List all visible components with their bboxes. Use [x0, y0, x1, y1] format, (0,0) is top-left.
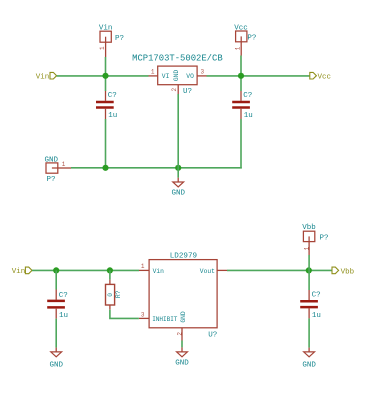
capacitor C3 — [47, 290, 65, 319]
svg-text:INHIBIT: INHIBIT — [152, 316, 178, 323]
hierarchical label Vbb — [332, 267, 354, 276]
svg-text:1: 1 — [99, 46, 106, 50]
junction rail / C1 — [102, 165, 108, 171]
wire cap C2 bottom to rail corner — [240, 119, 242, 169]
junction Vin / C3 — [53, 267, 59, 273]
ground symbol (U2) — [177, 347, 188, 356]
capacitor C4 — [300, 290, 318, 318]
svg-text:GND: GND — [180, 311, 187, 323]
ground symbol (C3) — [51, 348, 62, 357]
svg-text:1u: 1u — [108, 112, 117, 120]
capacitor C1 — [96, 91, 114, 119]
hierarchical label Vcc — [310, 72, 331, 81]
svg-text:C?: C? — [108, 92, 117, 100]
svg-text:R?: R? — [115, 290, 122, 298]
svg-text:1u: 1u — [312, 312, 321, 320]
pin 1 (U1 VI) — [149, 75, 158, 77]
ground symbol (C4) — [304, 348, 315, 357]
capacitor C2 — [232, 91, 250, 119]
op-amp U1 MCP1703T body — [158, 66, 197, 85]
svg-text:GND: GND — [175, 360, 189, 368]
svg-text:LD2979: LD2979 — [170, 252, 198, 260]
svg-text:Vin: Vin — [99, 25, 113, 33]
svg-text:1: 1 — [62, 161, 66, 168]
svg-text:C?: C? — [59, 292, 68, 300]
svg-text:3: 3 — [141, 311, 145, 318]
svg-text:GND: GND — [49, 361, 63, 369]
wire R1 to LD2979 pin3 — [110, 310, 139, 319]
wire TP3 to junction — [308, 255, 310, 270]
svg-text:P?: P? — [115, 35, 124, 43]
svg-text:0: 0 — [107, 293, 114, 297]
wire Vin label to LD2979 pin1 — [32, 269, 139, 271]
wire cap C1 bottom to ground rail — [105, 119, 107, 168]
wire U2 pin2 to ground — [181, 341, 183, 348]
pin Vout (U2) — [217, 269, 227, 271]
wire IC pin3 to Vcc label — [207, 75, 310, 77]
svg-text:C?: C? — [243, 92, 252, 100]
svg-text:Vbb: Vbb — [341, 268, 355, 276]
svg-text:1: 1 — [141, 263, 145, 270]
svg-text:C?: C? — [312, 292, 321, 300]
svg-text:3: 3 — [200, 69, 204, 76]
svg-text:Vcc: Vcc — [318, 74, 332, 82]
ground symbol (top circuit) — [173, 178, 184, 187]
test point P? (Vcc) — [236, 31, 247, 56]
svg-text:1: 1 — [235, 46, 242, 50]
wire TP2 to cap C2 — [240, 56, 242, 92]
op-amp U2 LD2979 body — [149, 260, 217, 328]
svg-text:Vin: Vin — [153, 268, 165, 275]
svg-text:U?: U? — [208, 331, 217, 339]
junction at Vcc node — [238, 73, 244, 79]
pin 1 (U2 Vin) — [139, 269, 149, 271]
svg-text:Vout: Vout — [200, 268, 215, 275]
svg-text:GND: GND — [173, 70, 180, 82]
ground rail wire (top circuit) — [71, 167, 242, 169]
test point P? (GND) — [46, 163, 71, 173]
hierarchical label Vin (top) — [36, 72, 57, 81]
svg-text:GND: GND — [302, 361, 316, 369]
pin 3 (U2 INHIBIT) — [139, 317, 149, 319]
resistor R1 — [106, 280, 115, 310]
svg-text:1: 1 — [304, 246, 311, 250]
svg-text:Vin: Vin — [36, 73, 50, 81]
wire junction to resistor R1 — [109, 270, 111, 279]
wire junction to cap C3 — [55, 270, 57, 289]
svg-text:GND: GND — [171, 190, 185, 198]
hierarchical label Vin (bottom) — [12, 267, 32, 276]
svg-text:Vcc: Vcc — [234, 24, 248, 32]
svg-text:1: 1 — [151, 69, 155, 76]
svg-text:P?: P? — [320, 234, 329, 242]
pin 2 (U1 GND) — [177, 85, 179, 94]
test point P? (Vin) — [100, 31, 111, 57]
svg-text:P?: P? — [247, 34, 256, 42]
svg-text:Vbb: Vbb — [302, 224, 316, 232]
pin 2 (U2 GND) — [181, 328, 183, 341]
svg-text:P?: P? — [47, 176, 56, 184]
svg-text:Vin: Vin — [12, 268, 26, 276]
junction rail / U1 GND — [175, 165, 181, 171]
test point P? (Vbb) — [303, 231, 314, 255]
svg-text:GND: GND — [45, 156, 59, 164]
junction Vbb node — [306, 267, 312, 273]
wire junction to cap C4 — [308, 270, 310, 290]
wire U1 pin2 to GND symbol — [177, 94, 179, 178]
svg-text:VO: VO — [186, 73, 194, 80]
wire TP1 to cap C1 — [105, 57, 107, 91]
wire C4 to ground — [308, 318, 310, 347]
pin 3 (U1 VO) — [197, 75, 206, 77]
junction Vin / R1 — [107, 267, 113, 273]
wire Vout to Vbb label — [227, 269, 332, 271]
svg-text:1u: 1u — [59, 312, 68, 320]
svg-text:1u: 1u — [244, 112, 253, 120]
svg-text:MCP1703T-5002E/CB: MCP1703T-5002E/CB — [132, 53, 223, 63]
svg-text:2: 2 — [176, 332, 183, 336]
svg-text:VI: VI — [162, 73, 170, 80]
svg-text:2: 2 — [171, 88, 178, 92]
junction at Vin node — [102, 73, 108, 79]
svg-text:U?: U? — [183, 88, 192, 96]
wire C3 to ground — [55, 319, 57, 348]
wire Vin label to IC pin1 — [57, 75, 149, 77]
